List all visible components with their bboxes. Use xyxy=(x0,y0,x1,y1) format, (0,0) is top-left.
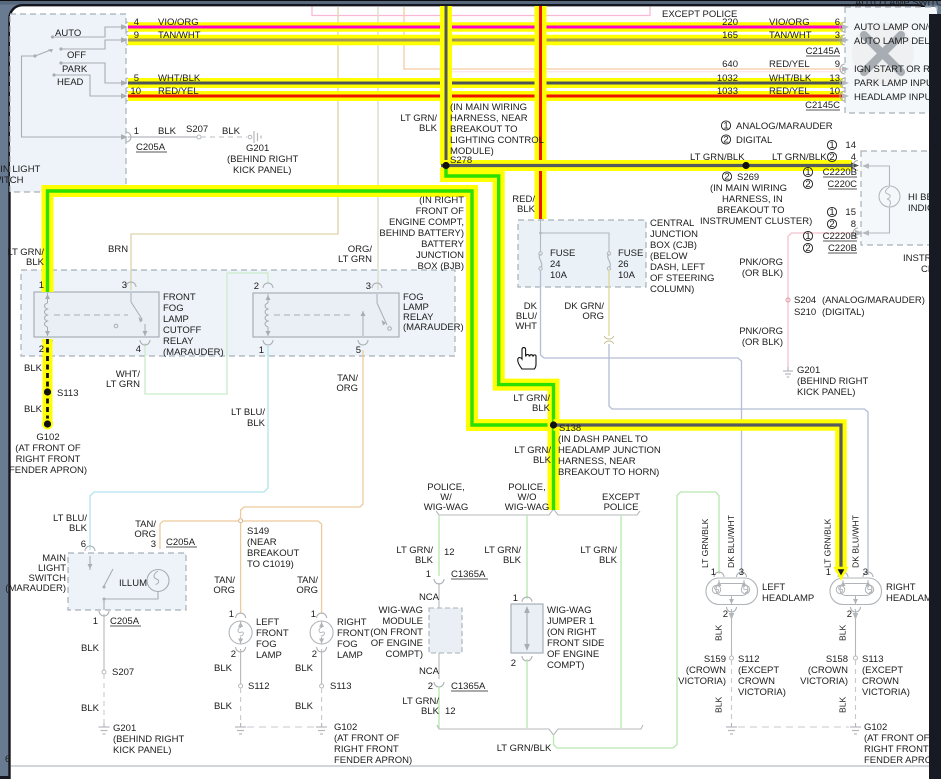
svg-text:BATTERY: BATTERY xyxy=(421,239,465,250)
wire DK GRN/ORG fuse 26 upper xyxy=(608,270,610,336)
svg-text:OFF: OFF xyxy=(67,50,86,61)
svg-text:COMPT): COMPT) xyxy=(386,649,423,660)
svg-text:G201: G201 xyxy=(246,143,269,154)
wire WHT/BLK core xyxy=(128,82,843,85)
svg-text:RED/YEL: RED/YEL xyxy=(769,86,810,97)
svg-text:2: 2 xyxy=(428,681,433,692)
svg-text:BREAKOUT TO: BREAKOUT TO xyxy=(450,124,518,135)
wire BLK S207 to G201 (dashed) xyxy=(201,136,247,138)
hi beam indicator internal wiring xyxy=(864,166,890,233)
svg-text:BLK: BLK xyxy=(26,257,45,268)
right dark strip xyxy=(929,14,941,779)
splice dot S138 xyxy=(550,421,557,428)
switch S2 internals xyxy=(90,556,158,610)
svg-text:RIGHT FRONT: RIGHT FRONT xyxy=(334,744,399,755)
left headlamp body xyxy=(706,578,758,605)
svg-text:S207: S207 xyxy=(112,667,134,678)
svg-text:(BEHIND RIGHT: (BEHIND RIGHT xyxy=(113,734,184,745)
cutoff relay internal dashed link xyxy=(54,314,128,316)
svg-text:10: 10 xyxy=(829,86,840,97)
svg-text:FRONT OF: FRONT OF xyxy=(416,206,465,217)
svg-text:S113: S113 xyxy=(330,681,351,692)
svg-text:2: 2 xyxy=(312,649,317,660)
svg-text:HEAD: HEAD xyxy=(57,77,84,88)
svg-text:2: 2 xyxy=(723,609,728,620)
svg-text:CENTRAL: CENTRAL xyxy=(650,218,694,229)
svg-text:HEADLAMP: HEADLAMP xyxy=(762,593,814,604)
svg-text:DASH, LEFT: DASH, LEFT xyxy=(650,262,705,273)
svg-text:2: 2 xyxy=(231,649,236,660)
svg-text:G102: G102 xyxy=(864,722,887,733)
svg-text:BLK: BLK xyxy=(503,555,522,566)
svg-text:WIG-WAG: WIG-WAG xyxy=(505,502,550,513)
fog lamp relay rectangle xyxy=(253,293,399,337)
svg-text:8: 8 xyxy=(851,219,856,230)
svg-text:640: 640 xyxy=(722,59,738,70)
svg-text:1: 1 xyxy=(829,207,834,218)
svg-text:26: 26 xyxy=(618,259,629,270)
wire LT GRN/BLK module to bus 2 xyxy=(438,686,440,728)
splice S113 xyxy=(320,684,324,688)
svg-text:PNK/ORG: PNK/ORG xyxy=(739,257,783,268)
svg-text:BLK: BLK xyxy=(69,523,88,534)
svg-text:3: 3 xyxy=(863,567,868,578)
svg-text:BLK: BLK xyxy=(599,555,618,566)
svg-text:S112: S112 xyxy=(248,681,269,692)
CJB internal feed to fuse 26 xyxy=(541,233,610,252)
svg-text:G102: G102 xyxy=(334,722,357,733)
hi beam indicator lamp xyxy=(879,186,900,207)
fog relay contact xyxy=(358,283,387,345)
svg-text:G201: G201 xyxy=(113,723,136,734)
svg-text:FOG: FOG xyxy=(256,639,277,650)
svg-text:ORG: ORG xyxy=(582,311,604,322)
wire LT BLU/BLK fog relay pin1 to switch pin 6 xyxy=(90,346,268,550)
wire OFF contact to pin 9 xyxy=(61,40,122,49)
svg-text:BREAKOUT TO: BREAKOUT TO xyxy=(717,205,785,216)
svg-text:ORG: ORG xyxy=(336,383,358,394)
splice S113 dot (highlighted) xyxy=(44,388,51,395)
cutoff relay coil xyxy=(43,282,53,345)
svg-text:C205A: C205A xyxy=(110,616,140,627)
svg-text:HARNESS, NEAR: HARNESS, NEAR xyxy=(450,113,528,124)
svg-text:2: 2 xyxy=(847,609,852,620)
wire LT GRN/BLK S138 to right headlamp highlight xyxy=(554,425,842,572)
ground G102 dot (highlighted) xyxy=(42,419,53,430)
svg-text:RED/YEL: RED/YEL xyxy=(769,59,810,70)
svg-text:WIG-WAG: WIG-WAG xyxy=(424,502,469,513)
svg-text:S113: S113 xyxy=(862,654,883,665)
svg-text:JUNCTION: JUNCTION xyxy=(650,229,698,240)
svg-text:LAMP: LAMP xyxy=(337,650,363,661)
svg-text:(ANALOG/MARAUDER): (ANALOG/MARAUDER) xyxy=(822,295,925,306)
svg-text:C220C: C220C xyxy=(827,179,857,190)
svg-text:FRONT: FRONT xyxy=(337,628,370,639)
wire BLK S112 to ground (dashed) xyxy=(240,688,242,723)
svg-text:1: 1 xyxy=(93,616,98,627)
splice S159/S112 xyxy=(730,656,734,660)
svg-text:BLK: BLK xyxy=(222,126,241,137)
arrowhead into right headlamp pin 1 xyxy=(836,568,847,578)
wire BRN relay pin 3 riser xyxy=(131,7,338,290)
wire VIO/ORG core xyxy=(128,26,843,29)
wire HEAD contact to pin 10 xyxy=(54,75,122,96)
wire BLK pin1 to S207 xyxy=(128,136,197,138)
svg-text:KICK PANEL): KICK PANEL) xyxy=(233,165,291,176)
svg-text:(OR BLK): (OR BLK) xyxy=(742,268,783,279)
svg-text:2: 2 xyxy=(39,344,44,355)
svg-text:5: 5 xyxy=(356,345,361,356)
left headlamp pin 2 drop xyxy=(731,596,733,605)
svg-text:2: 2 xyxy=(805,243,810,254)
svg-text:(CROWN: (CROWN xyxy=(808,665,848,676)
svg-text:HARNESS, NEAR: HARNESS, NEAR xyxy=(558,456,636,467)
right front fog lamp pin 1 arc xyxy=(317,613,327,618)
svg-text:S149: S149 xyxy=(247,526,269,537)
splice S207 lower xyxy=(102,670,106,674)
svg-text:1: 1 xyxy=(426,569,431,580)
svg-text:15: 15 xyxy=(845,207,856,218)
ground symbol left headlamp xyxy=(726,723,737,734)
svg-text:10A: 10A xyxy=(550,270,568,281)
svg-text:RIGHT: RIGHT xyxy=(337,617,367,628)
svg-text:FRONT SIDE: FRONT SIDE xyxy=(547,638,604,649)
ground G201 inline symbol xyxy=(248,131,261,143)
svg-text:RIGHT: RIGHT xyxy=(886,582,916,593)
svg-text:SWITCH: SWITCH xyxy=(0,175,24,186)
front fog lamp cutoff relay rectangle xyxy=(34,292,159,337)
svg-text:HEADLAMP INPUT: HEADLAMP INPUT xyxy=(854,92,937,103)
wire TAN/WHT core xyxy=(128,39,843,42)
svg-text:3: 3 xyxy=(835,30,840,41)
svg-text:MAIN LIGHT: MAIN LIGHT xyxy=(0,164,41,175)
pin arrows into connector C205A xyxy=(121,24,128,140)
splice S149 xyxy=(239,519,243,523)
svg-text:C1365A: C1365A xyxy=(451,569,486,580)
svg-text:12: 12 xyxy=(444,547,455,558)
wire LT GRN/BLK S278 to S138 (green) highlight xyxy=(446,168,554,510)
svg-text:S112: S112 xyxy=(738,654,759,665)
wig-wag module dashed rectangle xyxy=(429,608,462,653)
svg-text:DK BLU/WHT: DK BLU/WHT xyxy=(726,514,736,568)
svg-text:VICTORIA): VICTORIA) xyxy=(862,687,910,698)
wire TAN/WHT highlight xyxy=(128,35,843,46)
svg-text:RIGHT FRONT: RIGHT FRONT xyxy=(16,454,81,465)
right headlamp filaments xyxy=(836,585,844,593)
svg-text:AUTO LAMP DELAY: AUTO LAMP DELAY xyxy=(854,36,941,47)
svg-text:(BEHIND RIGHT: (BEHIND RIGHT xyxy=(227,154,298,165)
svg-text:ILLUM: ILLUM xyxy=(119,578,147,589)
svg-text:BREAKOUT TO HORN): BREAKOUT TO HORN) xyxy=(558,467,659,478)
svg-text:4: 4 xyxy=(134,17,139,28)
svg-text:(OR BLK): (OR BLK) xyxy=(742,337,783,348)
svg-text:S210: S210 xyxy=(794,307,816,318)
wire NCA out of wig-wag module xyxy=(438,653,440,679)
svg-text:S138: S138 xyxy=(559,423,581,434)
wire LT GRN/BLK S278 to instrument cluster highlight xyxy=(441,160,852,171)
svg-text:(AT FRONT OF: (AT FRONT OF xyxy=(15,443,81,454)
svg-text:C205A: C205A xyxy=(166,537,196,548)
wire NCA into wig-wag module xyxy=(438,583,440,608)
ground bus headlamps dashed xyxy=(738,726,849,728)
svg-text:S278: S278 xyxy=(450,155,472,166)
splice S112 xyxy=(239,684,243,688)
wire BLK cutoff relay to G102 highlight xyxy=(43,339,53,424)
svg-text:G201: G201 xyxy=(797,365,820,376)
ground symbol G201 lower xyxy=(99,723,110,734)
svg-text:3: 3 xyxy=(366,281,371,292)
svg-text:2: 2 xyxy=(829,152,834,163)
svg-text:WHT: WHT xyxy=(515,321,537,332)
hi beam indicator dashed box xyxy=(861,151,940,245)
wire LT GRN/BLK bus 2 to headlamp pin 1 riser xyxy=(554,492,720,748)
svg-text:BLK: BLK xyxy=(24,404,43,415)
wire TAN/ORG S149 to right fog lamp pin 1 xyxy=(243,521,322,614)
svg-text:C2145A: C2145A xyxy=(806,46,841,57)
svg-text:1032: 1032 xyxy=(717,73,738,84)
svg-text:POLICE: POLICE xyxy=(604,502,639,513)
svg-text:BLK: BLK xyxy=(714,624,724,641)
svg-text:FUSE: FUSE xyxy=(618,248,643,259)
arrow PNK/ORG into instrument cluster xyxy=(855,230,863,236)
svg-text:FRONT: FRONT xyxy=(256,628,289,639)
svg-text:BOX (CJB): BOX (CJB) xyxy=(650,240,697,251)
option bus 2 above headlamp feed xyxy=(437,725,643,735)
jumper pin 1 arc xyxy=(522,597,532,602)
svg-text:2: 2 xyxy=(254,281,259,292)
wire WHT/LT GRN relay pin4 loop xyxy=(145,273,268,394)
svg-text:ANALOG/MARAUDER: ANALOG/MARAUDER xyxy=(736,121,833,132)
svg-text:C220B: C220B xyxy=(828,243,857,254)
svg-text:VIO/ORG: VIO/ORG xyxy=(769,17,810,28)
svg-text:3: 3 xyxy=(122,280,127,291)
svg-text:IGN START OR RUN: IGN START OR RUN xyxy=(854,64,941,75)
left front fog lamp bulb xyxy=(229,621,252,644)
wire RED/BLK riser to fuse 24 highlight xyxy=(535,6,547,219)
svg-text:LT GRN/BLK: LT GRN/BLK xyxy=(700,518,710,568)
ground symbol left fog lamp xyxy=(235,723,246,734)
svg-text:LAMP: LAMP xyxy=(163,314,189,325)
svg-text:VICTORIA): VICTORIA) xyxy=(738,687,786,698)
svg-text:CUTOFF: CUTOFF xyxy=(163,325,202,336)
svg-text:TO C1019): TO C1019) xyxy=(247,559,294,570)
svg-text:CROWN: CROWN xyxy=(738,676,775,687)
svg-text:(EXCEPT: (EXCEPT xyxy=(738,665,779,676)
svg-text:BLK: BLK xyxy=(421,706,440,717)
mouse cursor xyxy=(518,348,536,369)
svg-text:BLK: BLK xyxy=(24,363,43,374)
svg-text:1: 1 xyxy=(311,609,316,620)
svg-text:1: 1 xyxy=(229,609,234,620)
svg-text:BLK: BLK xyxy=(295,701,314,712)
svg-text:MODULE: MODULE xyxy=(382,616,423,627)
svg-text:HARNESS, IN: HARNESS, IN xyxy=(722,194,783,205)
svg-text:24: 24 xyxy=(550,259,561,270)
svg-text:2: 2 xyxy=(805,179,810,190)
splice S207 xyxy=(197,135,201,139)
svg-text:S158: S158 xyxy=(826,654,848,665)
svg-text:FENDER APRON): FENDER APRON) xyxy=(334,755,412,766)
svg-text:BLK: BLK xyxy=(419,123,438,134)
fuse 26 symbol xyxy=(608,254,611,268)
ground bus fog lamps dashed xyxy=(247,726,316,728)
splice S158/S113 xyxy=(854,656,858,660)
fog relay internal dashed link xyxy=(274,314,352,316)
svg-text:TAN/WHT: TAN/WHT xyxy=(158,30,201,41)
svg-text:165: 165 xyxy=(722,30,738,41)
svg-text:3: 3 xyxy=(739,567,744,578)
wire BLK to ground (dashed) xyxy=(731,660,733,723)
right front fog lamp bulb xyxy=(310,621,333,644)
svg-text:ORG: ORG xyxy=(213,585,235,596)
wire AUTO contact to pin 4 xyxy=(53,27,123,37)
svg-text:NCA: NCA xyxy=(419,666,440,677)
wire LT GRN/BLK switch to S138 (green) highlight xyxy=(48,191,554,425)
connector arcs at instrument cluster xyxy=(853,161,858,171)
svg-text:(NEAR: (NEAR xyxy=(247,537,277,548)
svg-text:(BELOW: (BELOW xyxy=(650,251,688,262)
page bottom edge line xyxy=(11,765,929,767)
svg-text:6: 6 xyxy=(81,539,86,550)
svg-text:PARK LAMP INPUT: PARK LAMP INPUT xyxy=(854,78,939,89)
svg-text:PNK/ORG: PNK/ORG xyxy=(739,326,783,337)
svg-text:9: 9 xyxy=(835,59,840,70)
svg-text:C205A: C205A xyxy=(136,142,166,153)
svg-text:BLK: BLK xyxy=(81,643,100,654)
svg-text:C1365A: C1365A xyxy=(451,681,486,692)
svg-text:AUTO LAMP ON/OFF: AUTO LAMP ON/OFF xyxy=(854,22,941,33)
svg-text:WIG-WAG: WIG-WAG xyxy=(547,605,592,616)
svg-text:1: 1 xyxy=(513,593,518,604)
circled pin qualifiers xyxy=(721,121,836,253)
wire BLK right headlamp to S158/S113 xyxy=(855,609,857,656)
wire TAN/ORG switch pin3 to S149 xyxy=(160,521,238,549)
wig-wag jumper 1 rectangle xyxy=(511,604,543,653)
svg-text:2: 2 xyxy=(724,172,729,183)
svg-text:NCA: NCA xyxy=(419,592,440,603)
wire LT GRN/BLK jumper to bus 2 xyxy=(526,659,528,728)
switch S1 contact dots xyxy=(33,35,62,76)
svg-text:C2145C: C2145C xyxy=(805,100,840,111)
wig-wag jumper internal arrow xyxy=(526,609,528,648)
jumper pin 2 arc xyxy=(522,656,532,661)
switch S2 ILLUM lamp xyxy=(147,570,169,592)
svg-text:1: 1 xyxy=(711,567,716,578)
svg-text:1: 1 xyxy=(134,126,139,137)
wire PNK/ORG instrument cluster to G201 xyxy=(788,233,856,367)
svg-text:(MARAUDER): (MARAUDER) xyxy=(163,347,224,358)
left headlamp filaments xyxy=(712,585,720,593)
faint pink line under 640 xyxy=(446,71,843,73)
svg-text:LIGHTING CONTROL: LIGHTING CONTROL xyxy=(450,135,544,146)
svg-text:BLK: BLK xyxy=(532,403,551,414)
svg-text:RIGHT FRONT: RIGHT FRONT xyxy=(864,744,929,755)
svg-text:JUMPER 1: JUMPER 1 xyxy=(547,616,594,627)
svg-text:S159: S159 xyxy=(704,654,726,665)
wire VIO/ORG highlight xyxy=(128,22,843,32)
svg-text:LT BLU/: LT BLU/ xyxy=(231,407,265,418)
svg-text:WIG-WAG: WIG-WAG xyxy=(379,605,424,616)
cutoff relay contact xyxy=(126,282,150,345)
svg-text:BRN: BRN xyxy=(108,244,128,255)
wire LT GRN/BLK branch police w/o wig-wag xyxy=(526,515,528,599)
svg-text:4: 4 xyxy=(136,344,141,355)
wire BLK right fog lamp to S113 xyxy=(321,649,323,684)
svg-text:13: 13 xyxy=(829,73,840,84)
fuse 24 symbol xyxy=(539,254,542,268)
wire BLK left fog lamp to S112 xyxy=(240,649,242,684)
svg-text:6: 6 xyxy=(835,17,840,28)
svg-text:LT GRN/BLK: LT GRN/BLK xyxy=(823,518,833,568)
svg-text:(IN RIGHT: (IN RIGHT xyxy=(419,195,464,206)
svg-text:BLK: BLK xyxy=(214,663,233,674)
svg-text:BLK: BLK xyxy=(214,701,233,712)
svg-text:BLK: BLK xyxy=(247,418,266,429)
wire LT GRN/BLK riser from LCM highlight xyxy=(440,6,452,165)
wire BLK S113 to ground (dashed) xyxy=(321,688,323,723)
wire TAN/ORG S149 to left fog lamp pin 1 xyxy=(240,523,242,614)
wire RED/YEL core xyxy=(128,95,843,98)
svg-text:DK BLU/WHT: DK BLU/WHT xyxy=(851,514,861,568)
switch arm xyxy=(35,50,52,57)
svg-text:(ON RIGHT: (ON RIGHT xyxy=(547,627,597,638)
svg-text:10A: 10A xyxy=(618,270,636,281)
svg-text:S207: S207 xyxy=(186,124,208,135)
svg-text:2: 2 xyxy=(829,219,834,230)
svg-text:BLK: BLK xyxy=(81,703,100,714)
switch S1 internal wiring xyxy=(22,27,123,137)
svg-text:(CROWN: (CROWN xyxy=(686,665,726,676)
svg-text:LT GRN/BLK: LT GRN/BLK xyxy=(690,152,745,163)
svg-text:LT GRN: LT GRN xyxy=(338,254,372,265)
svg-text:VICTORIA): VICTORIA) xyxy=(678,676,726,687)
left front fog lamp pin 1 arc xyxy=(236,613,246,618)
svg-text:LEFT: LEFT xyxy=(762,582,785,593)
svg-text:BLK: BLK xyxy=(158,126,177,137)
svg-text:LEFT: LEFT xyxy=(256,617,279,628)
wire common bus to pin 1 xyxy=(22,56,123,137)
svg-text:VIO/ORG: VIO/ORG xyxy=(158,17,199,28)
svg-text:6: 6 xyxy=(5,754,10,765)
svg-text:BLK: BLK xyxy=(295,663,314,674)
svg-text:(EXCEPT: (EXCEPT xyxy=(862,665,903,676)
svg-text:HEADLAMP JUNCTION: HEADLAMP JUNCTION xyxy=(558,445,661,456)
svg-text:S269: S269 xyxy=(737,172,759,183)
lighting module dashed box (top right) xyxy=(845,7,937,113)
ground G201 symbol (right) xyxy=(783,367,793,377)
svg-text:1033: 1033 xyxy=(717,86,738,97)
svg-text:BLK: BLK xyxy=(714,696,724,713)
wire BLK S207 to G201 (dashed) xyxy=(103,674,105,723)
svg-text:9: 9 xyxy=(134,30,139,41)
svg-text:LT GRN/BLK: LT GRN/BLK xyxy=(497,743,552,754)
wire PARK contact to pin 5 xyxy=(61,63,122,83)
svg-text:14: 14 xyxy=(845,140,856,151)
svg-text:BLK: BLK xyxy=(838,696,848,713)
svg-text:1: 1 xyxy=(829,140,834,151)
svg-text:LAMP: LAMP xyxy=(256,650,282,661)
splice S204 xyxy=(786,298,790,302)
window title bar xyxy=(0,0,941,5)
svg-text:JUNCTION: JUNCTION xyxy=(416,250,464,261)
svg-text:220: 220 xyxy=(722,17,738,28)
svg-text:TAN/WHT: TAN/WHT xyxy=(769,30,812,41)
svg-text:BREAKOUT: BREAKOUT xyxy=(247,548,299,559)
svg-text:1: 1 xyxy=(805,231,810,242)
wire BLK to ground G102 (dashed) xyxy=(855,660,857,723)
right headlamp pin 2 drop xyxy=(855,596,857,605)
wire LT GRN/BLK branch police w/ wig-wag xyxy=(438,515,440,576)
